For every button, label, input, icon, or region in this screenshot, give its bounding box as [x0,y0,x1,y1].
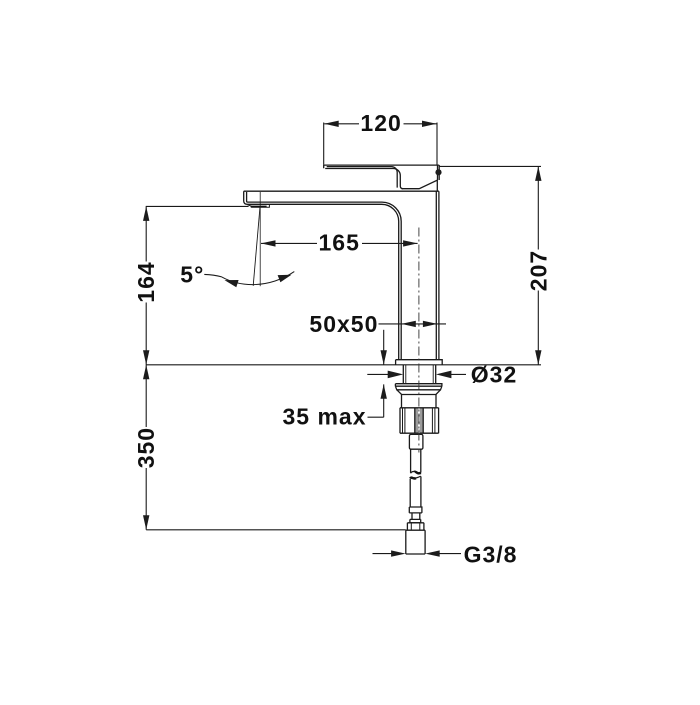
svg-text:207: 207 [525,250,551,291]
svg-text:165: 165 [319,230,360,256]
svg-text:50x50: 50x50 [309,311,378,337]
svg-text:G3/8: G3/8 [464,541,518,567]
svg-text:35 max: 35 max [282,403,366,429]
svg-text:Ø32: Ø32 [471,361,517,387]
svg-text:5°: 5° [180,262,204,288]
svg-text:120: 120 [360,110,401,136]
svg-text:350: 350 [133,427,159,468]
svg-text:164: 164 [133,261,159,302]
